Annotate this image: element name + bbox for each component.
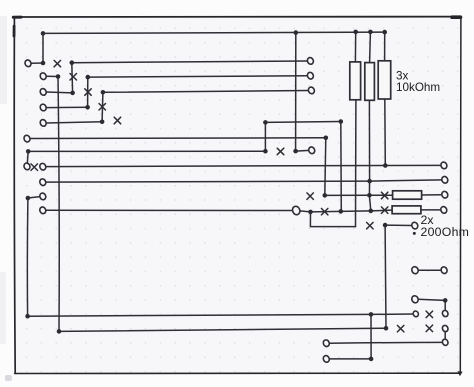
svg-text:200Ohm: 200Ohm [421, 225, 470, 239]
svg-text:10kOhm: 10kOhm [396, 81, 440, 94]
